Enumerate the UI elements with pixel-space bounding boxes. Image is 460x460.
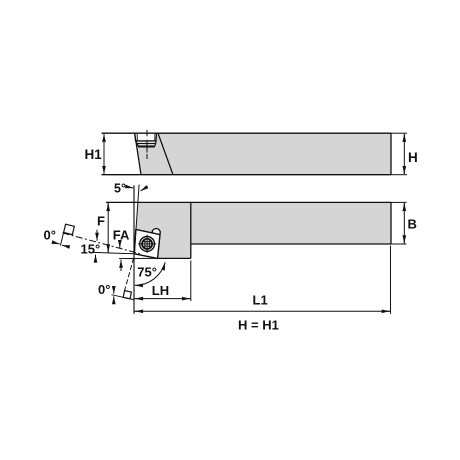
svg-text:FA: FA	[113, 228, 130, 243]
svg-text:5°: 5°	[114, 182, 126, 196]
svg-text:H1: H1	[85, 147, 103, 162]
svg-text:LH: LH	[152, 283, 169, 298]
svg-text:F: F	[97, 213, 105, 228]
svg-text:15°: 15°	[81, 242, 101, 257]
svg-text:H = H1: H = H1	[238, 317, 279, 332]
svg-text:0°: 0°	[98, 282, 110, 297]
svg-text:L1: L1	[253, 292, 268, 307]
svg-text:0°: 0°	[44, 228, 56, 243]
svg-text:75°: 75°	[137, 264, 157, 279]
svg-text:B: B	[408, 216, 417, 231]
svg-text:H: H	[408, 150, 418, 165]
